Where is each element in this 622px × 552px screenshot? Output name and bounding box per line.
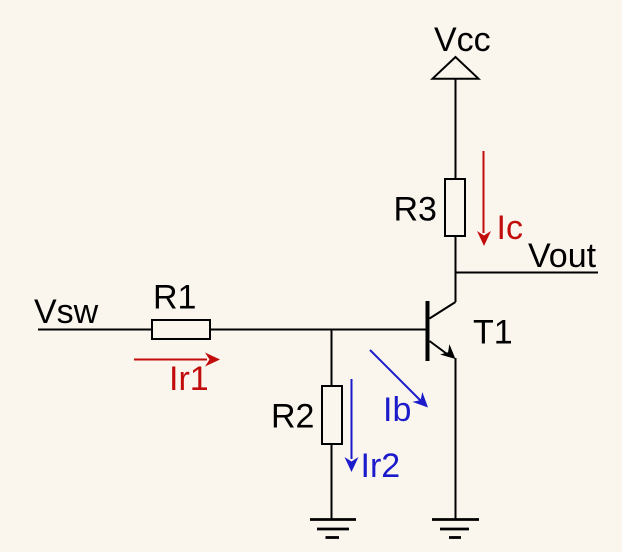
- resistor R3: [445, 179, 465, 236]
- svg-text:R3: R3: [394, 191, 437, 229]
- wire R2 to ground: [331, 444, 333, 520]
- transistor T1: [426, 301, 461, 364]
- wire emitter to ground: [455, 358, 457, 520]
- svg-text:Vsw: Vsw: [34, 293, 99, 331]
- current arrow Ir2: [345, 379, 359, 472]
- resistor R2: [322, 386, 342, 444]
- wire base junction to R2: [331, 330, 333, 388]
- svg-text:R1: R1: [153, 279, 196, 317]
- current arrow Ic: [477, 151, 491, 246]
- wire Vsw to R1: [38, 329, 152, 331]
- svg-text:R2: R2: [271, 398, 314, 436]
- wire Vout: [456, 272, 599, 274]
- svg-text:T1: T1: [473, 314, 513, 352]
- ground left: [310, 520, 356, 538]
- svg-text:Ir1: Ir1: [169, 360, 209, 398]
- ground right: [432, 520, 479, 538]
- svg-text:Vcc: Vcc: [434, 21, 491, 59]
- svg-text:Ir2: Ir2: [361, 447, 401, 485]
- power Vcc: [433, 57, 479, 79]
- resistor R1: [152, 320, 210, 339]
- svg-text:Vout: Vout: [528, 237, 597, 275]
- current arrow Ib: [370, 350, 433, 412]
- wire R1 to base: [210, 329, 426, 331]
- wire R3 to collector: [455, 236, 457, 302]
- svg-text:Ib: Ib: [383, 391, 411, 429]
- current arrow Ir1: [134, 353, 220, 367]
- svg-text:Ic: Ic: [497, 209, 523, 247]
- wire Vcc to R3: [455, 79, 457, 180]
